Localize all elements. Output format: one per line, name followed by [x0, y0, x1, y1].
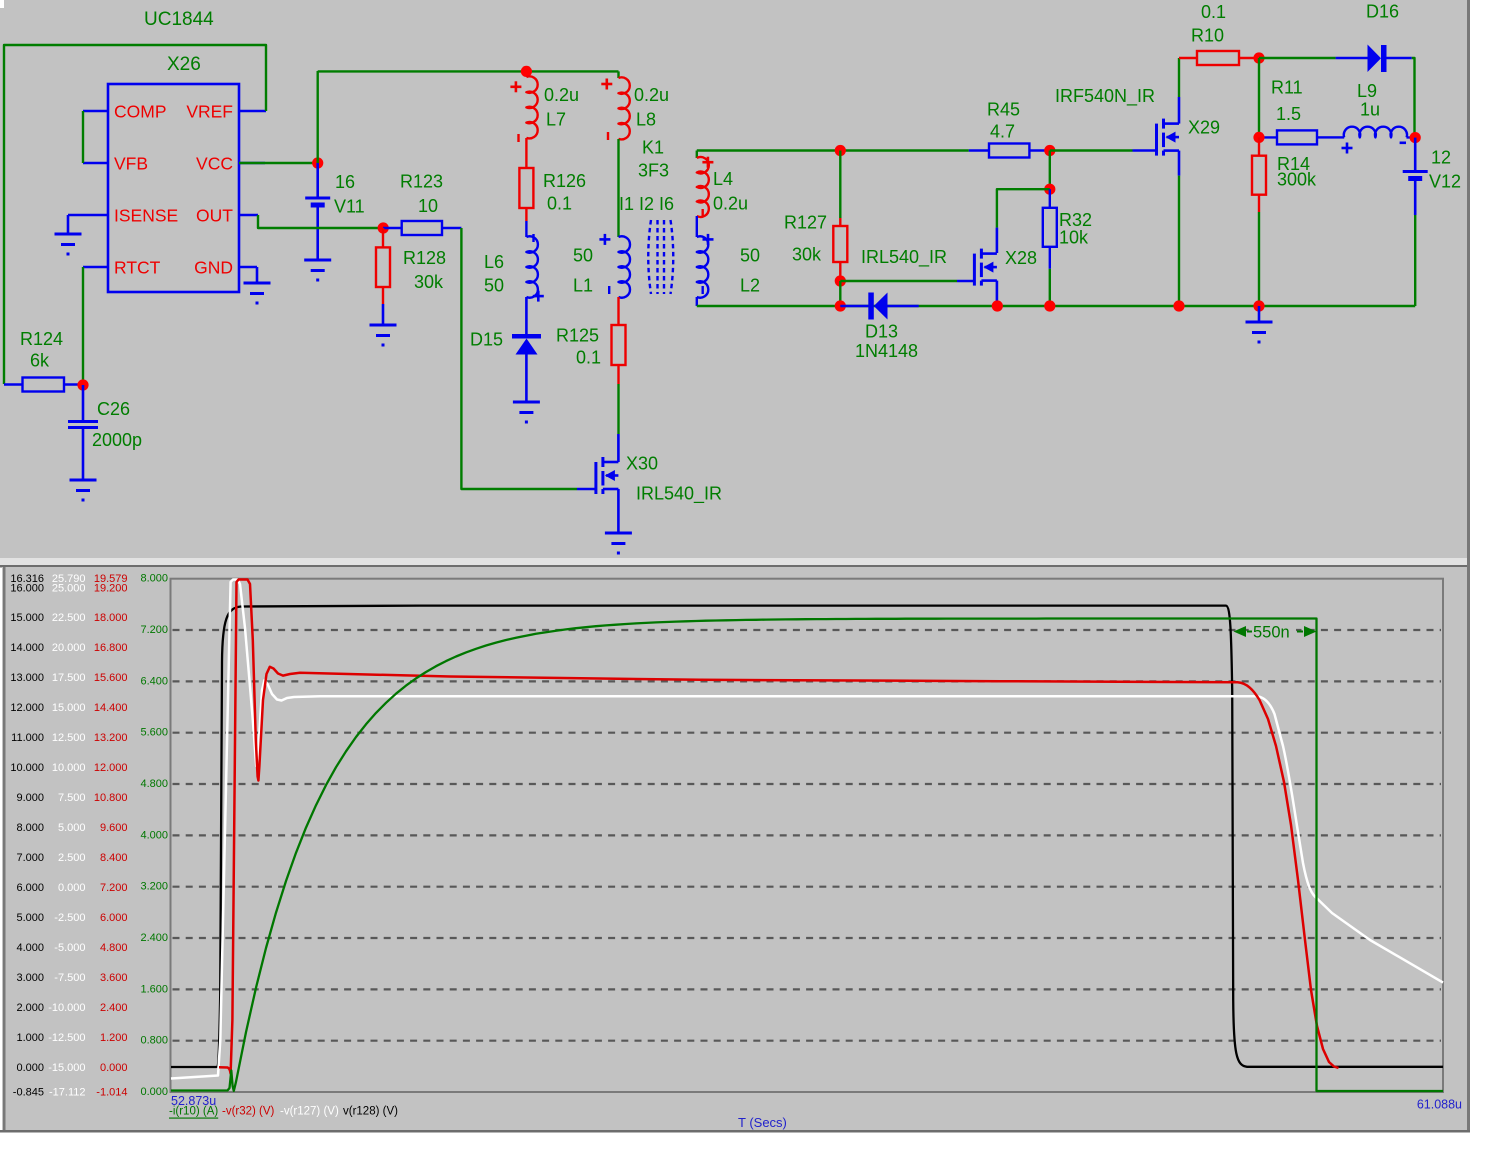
- svg-text:18.000: 18.000: [94, 612, 128, 624]
- wire VCC to top rail: [317, 71, 319, 163]
- pin VCC: [239, 162, 265, 165]
- svg-text:0.000: 0.000: [140, 1086, 168, 1098]
- svg-text:0.2u: 0.2u: [634, 85, 669, 105]
- gridlines: [173, 629, 1442, 631]
- svg-text:61.088u: 61.088u: [1417, 1098, 1462, 1112]
- wire R45 to X29 gate: [1050, 149, 1133, 151]
- pin GND: [239, 266, 257, 269]
- inductor L2: [696, 216, 698, 237]
- svg-text:UC1844: UC1844: [144, 9, 214, 30]
- svg-text:GND: GND: [194, 258, 233, 278]
- svg-text:4.000: 4.000: [16, 942, 44, 954]
- ground bottom rail: [1258, 306, 1261, 322]
- svg-text:T (Secs): T (Secs): [738, 1115, 787, 1130]
- wire RTCT down: [82, 267, 84, 385]
- pin COMP: [83, 110, 108, 113]
- svg-text:2.000: 2.000: [16, 1002, 44, 1014]
- node OUT junction: [378, 222, 389, 233]
- svg-text:12.500: 12.500: [52, 732, 86, 744]
- svg-text:15.000: 15.000: [52, 702, 86, 714]
- node R32 top junction: [1044, 184, 1055, 195]
- node RTCT junction: [77, 379, 88, 390]
- svg-text:0.2u: 0.2u: [713, 194, 748, 214]
- svg-text:5.000: 5.000: [58, 822, 86, 834]
- node ground rail junction: [1253, 300, 1264, 311]
- svg-text:VCC: VCC: [196, 154, 233, 174]
- wire R123 to X30 gate: [461, 228, 577, 489]
- pin VFB: [83, 162, 108, 165]
- wire R45 junction down to R32: [1049, 151, 1051, 190]
- svg-text:10.000: 10.000: [52, 762, 86, 774]
- node X29 source rail junction: [1173, 300, 1184, 311]
- pin VREF: [239, 110, 266, 113]
- ground R128: [370, 324, 397, 327]
- plot panel background: [2, 567, 1470, 1130]
- resistor R125: [617, 297, 619, 325]
- resistor R126: [525, 138, 527, 168]
- svg-text:ISENSE: ISENSE: [114, 206, 178, 226]
- resistor R32: [1049, 189, 1051, 208]
- svg-text:0.1: 0.1: [547, 194, 572, 214]
- diode D16: [1259, 57, 1336, 59]
- inductor L6: [525, 221, 527, 237]
- svg-text:1.000: 1.000: [16, 1032, 44, 1044]
- node R10 junction: [1253, 52, 1264, 63]
- diode D15: [512, 334, 541, 339]
- svg-text:VREF: VREF: [186, 102, 233, 122]
- svg-text:12.000: 12.000: [94, 762, 128, 774]
- wire COMP-VFB loop: [82, 111, 84, 163]
- wire secondary top rail: [697, 149, 969, 151]
- curve -v(r127) white: [171, 580, 1443, 1079]
- node VCC junction: [312, 157, 323, 168]
- svg-text:50: 50: [740, 246, 760, 266]
- svg-text:X30: X30: [626, 454, 658, 474]
- svg-text:VFB: VFB: [114, 154, 148, 174]
- svg-text:50: 50: [573, 246, 593, 266]
- svg-text:10.000: 10.000: [10, 762, 44, 774]
- wire OUT: [258, 215, 383, 228]
- transistor X28: [973, 254, 976, 286]
- node D13 cathode junction: [992, 300, 1003, 311]
- transistor X29: [1155, 124, 1158, 156]
- wire R125 to X30: [617, 384, 619, 434]
- resistor R123: [383, 227, 402, 229]
- pin ISENSE: [68, 214, 108, 217]
- panel divider: [0, 558, 1500, 565]
- svg-text:-i(r10) (A): -i(r10) (A): [169, 1106, 218, 1118]
- wire R127 to X28 gate: [840, 280, 957, 282]
- wire secondary bottom rail: [697, 305, 1415, 307]
- resistor R128: [382, 228, 384, 247]
- wire R10 junction down: [1258, 58, 1260, 137]
- inductor L1: [619, 236, 631, 297]
- annotation 550n measurement: [1237, 631, 1313, 633]
- svg-text:COMP: COMP: [114, 102, 167, 122]
- svg-text:12.000: 12.000: [10, 702, 44, 714]
- svg-text:10.800: 10.800: [94, 792, 128, 804]
- transformer K1 core: [648, 220, 651, 294]
- svg-text:-v(r127) (V): -v(r127) (V): [280, 1106, 339, 1118]
- pin RTCT: [83, 266, 108, 269]
- svg-text:4.000: 4.000: [140, 829, 168, 841]
- svg-text:0.000: 0.000: [16, 1062, 44, 1074]
- inductor L7: [526, 76, 537, 138]
- ground D15: [513, 401, 540, 404]
- svg-text:D15: D15: [470, 330, 503, 350]
- inductor L4: [696, 151, 698, 159]
- svg-text:L7: L7: [546, 110, 566, 130]
- wire L8 to L1: [617, 139, 619, 237]
- inductor L7 polarity: [510, 86, 521, 89]
- svg-text:7.200: 7.200: [100, 882, 128, 894]
- svg-text:4.800: 4.800: [100, 942, 128, 954]
- svg-text:-10.000: -10.000: [48, 1002, 85, 1014]
- svg-text:R124: R124: [20, 329, 63, 349]
- svg-text:2.400: 2.400: [100, 1002, 128, 1014]
- svg-text:I1 I2 I6: I1 I2 I6: [619, 194, 674, 214]
- svg-text:R128: R128: [403, 248, 446, 268]
- svg-text:13.000: 13.000: [10, 672, 44, 684]
- svg-text:4.7: 4.7: [990, 122, 1015, 142]
- svg-text:3F3: 3F3: [638, 161, 669, 181]
- svg-text:13.200: 13.200: [94, 732, 128, 744]
- inductor L8 polarity: [601, 83, 612, 86]
- inductor L4 polarity: [702, 161, 713, 164]
- node L9 junction: [1410, 132, 1421, 143]
- svg-text:D16: D16: [1366, 2, 1399, 22]
- wire VCC: [239, 162, 318, 164]
- svg-text:L6: L6: [484, 252, 504, 272]
- svg-text:5.600: 5.600: [140, 727, 168, 739]
- inductor L9: [1330, 136, 1344, 138]
- svg-text:7.500: 7.500: [58, 792, 86, 804]
- svg-text:3.200: 3.200: [140, 881, 168, 893]
- svg-text:-15.000: -15.000: [48, 1062, 85, 1074]
- svg-text:1.5: 1.5: [1276, 104, 1301, 124]
- node R45 junction: [1044, 145, 1055, 156]
- svg-text:15.600: 15.600: [94, 672, 128, 684]
- svg-text:8.400: 8.400: [100, 852, 128, 864]
- svg-text:X28: X28: [1005, 248, 1037, 268]
- IC X26 body: [108, 84, 239, 292]
- svg-text:-v(r32) (V): -v(r32) (V): [222, 1106, 275, 1118]
- wire top rail to L7 L8: [318, 70, 619, 72]
- svg-text:3.600: 3.600: [100, 972, 128, 984]
- node L7 top junction: [521, 66, 532, 77]
- svg-text:-2.500: -2.500: [54, 912, 85, 924]
- svg-text:11.000: 11.000: [11, 732, 44, 744]
- svg-text:14.400: 14.400: [94, 702, 128, 714]
- svg-text:10k: 10k: [1059, 228, 1089, 248]
- svg-text:16.800: 16.800: [94, 642, 128, 654]
- curve -i(r10) green: [171, 619, 1443, 1092]
- svg-text:0.800: 0.800: [140, 1035, 168, 1047]
- svg-text:-17.112: -17.112: [49, 1087, 86, 1099]
- svg-text:3.000: 3.000: [16, 972, 44, 984]
- svg-text:7.000: 7.000: [16, 852, 44, 864]
- svg-text:22.500: 22.500: [52, 612, 86, 624]
- svg-text:D13: D13: [865, 322, 898, 342]
- curve -v(r32) red: [219, 580, 1339, 1074]
- inductor L2 polarity: [703, 238, 714, 241]
- svg-text:20.000: 20.000: [52, 642, 86, 654]
- svg-text:2000p: 2000p: [92, 430, 142, 450]
- svg-text:6.000: 6.000: [100, 912, 128, 924]
- svg-text:1.600: 1.600: [140, 983, 168, 995]
- svg-text:9.600: 9.600: [100, 822, 128, 834]
- svg-text:R11: R11: [1271, 78, 1303, 98]
- svg-text:4.800: 4.800: [140, 778, 168, 790]
- svg-text:L1: L1: [573, 276, 593, 296]
- svg-text:30k: 30k: [414, 272, 444, 292]
- svg-text:R125: R125: [556, 326, 599, 346]
- svg-text:17.500: 17.500: [52, 672, 86, 684]
- svg-text:L8: L8: [636, 110, 656, 130]
- svg-text:X29: X29: [1188, 118, 1220, 138]
- svg-text:-1.014: -1.014: [96, 1087, 127, 1099]
- svg-text:8.000: 8.000: [16, 822, 44, 834]
- svg-text:10: 10: [418, 196, 438, 216]
- svg-text:K1: K1: [642, 138, 664, 158]
- svg-text:OUT: OUT: [196, 206, 233, 226]
- svg-text:1u: 1u: [1360, 100, 1380, 120]
- svg-text:v(r128) (V): v(r128) (V): [343, 1106, 398, 1118]
- svg-text:8.000: 8.000: [140, 573, 168, 585]
- svg-text:19.200: 19.200: [94, 583, 128, 595]
- svg-text:R10: R10: [1191, 26, 1224, 46]
- node R11 junction: [1253, 132, 1264, 143]
- svg-text:0.1: 0.1: [576, 348, 601, 368]
- wire V12 to bottom rail: [1414, 215, 1416, 306]
- ground GND pin: [256, 267, 259, 283]
- svg-text:50: 50: [484, 276, 504, 296]
- source V11 battery: [316, 163, 319, 198]
- node D13 anode junction: [835, 300, 846, 311]
- svg-text:R126: R126: [543, 171, 586, 191]
- svg-text:-0.845: -0.845: [13, 1087, 44, 1099]
- svg-text:-5.000: -5.000: [54, 942, 85, 954]
- svg-text:-7.500: -7.500: [54, 972, 85, 984]
- svg-text:R127: R127: [784, 213, 827, 233]
- inductor L8: [617, 71, 619, 78]
- svg-text:7.200: 7.200: [140, 624, 168, 636]
- node R127 bottom junction: [835, 275, 846, 286]
- transistor X30: [617, 434, 620, 462]
- svg-text:R45: R45: [987, 100, 1020, 120]
- inductor L9 polarity: [1342, 147, 1353, 150]
- svg-text:L9: L9: [1357, 81, 1377, 101]
- resistor R45: [969, 149, 989, 151]
- svg-text:RTCT: RTCT: [114, 258, 161, 278]
- svg-text:L4: L4: [713, 169, 733, 189]
- svg-text:6.400: 6.400: [140, 675, 168, 687]
- svg-text:25.000: 25.000: [52, 583, 86, 595]
- svg-text:1.200: 1.200: [100, 1032, 128, 1044]
- source V12 battery: [1414, 138, 1417, 172]
- svg-text:6.000: 6.000: [16, 882, 44, 894]
- svg-text:0.2u: 0.2u: [544, 85, 579, 105]
- svg-text:V11: V11: [334, 197, 365, 217]
- inductor L6 polarity: [532, 234, 534, 242]
- pin OUT: [239, 214, 258, 217]
- svg-text:300k: 300k: [1277, 170, 1317, 190]
- svg-text:IRF540N_IR: IRF540N_IR: [1055, 86, 1155, 107]
- svg-text:IRL540_IR: IRL540_IR: [861, 247, 947, 268]
- resistor R124: [4, 383, 23, 385]
- resistor R11: [1259, 136, 1277, 138]
- svg-text:2.400: 2.400: [140, 932, 168, 944]
- svg-text:0.1: 0.1: [1201, 2, 1226, 22]
- wire R14 to bottom rail: [1258, 212, 1260, 306]
- svg-text:550n: 550n: [1253, 624, 1290, 642]
- resistor R127: [839, 151, 841, 219]
- svg-text:L2: L2: [740, 276, 760, 296]
- svg-text:12: 12: [1431, 148, 1451, 168]
- svg-text:5.000: 5.000: [16, 912, 44, 924]
- ground V11: [304, 259, 331, 262]
- wire VREF feedback top rail: [4, 45, 266, 384]
- curve v(r128) black: [171, 606, 1443, 1067]
- svg-text:14.000: 14.000: [10, 642, 44, 654]
- resistor R14: [1258, 137, 1260, 155]
- diode D13: [840, 305, 868, 308]
- svg-text:6k: 6k: [30, 351, 50, 371]
- svg-text:X26: X26: [167, 54, 201, 75]
- svg-text:16.000: 16.000: [10, 583, 44, 595]
- svg-text:15.000: 15.000: [10, 612, 44, 624]
- wire X28 drain: [997, 189, 1050, 227]
- node R32 bottom rail junction: [1044, 300, 1055, 311]
- ground X30: [605, 532, 632, 535]
- svg-text:0.000: 0.000: [58, 882, 86, 894]
- capacitor C26: [82, 385, 85, 421]
- svg-text:30k: 30k: [792, 245, 822, 265]
- svg-text:-12.500: -12.500: [48, 1032, 85, 1044]
- svg-text:1N4148: 1N4148: [855, 341, 918, 361]
- resistor R10: [1179, 57, 1197, 59]
- svg-text:R123: R123: [400, 172, 443, 192]
- ground ISENSE: [67, 215, 70, 234]
- svg-text:9.000: 9.000: [16, 792, 44, 804]
- node R127 top junction: [835, 145, 846, 156]
- ground C26: [70, 479, 97, 482]
- svg-text:C26: C26: [97, 399, 130, 419]
- svg-text:V12: V12: [1429, 172, 1461, 192]
- inductor L1 polarity: [599, 238, 610, 241]
- svg-text:0.000: 0.000: [100, 1062, 128, 1074]
- wire D16 to V12: [1412, 58, 1415, 138]
- svg-text:IRL540_IR: IRL540_IR: [636, 484, 722, 505]
- svg-text:16: 16: [335, 172, 355, 192]
- svg-text:2.500: 2.500: [58, 852, 86, 864]
